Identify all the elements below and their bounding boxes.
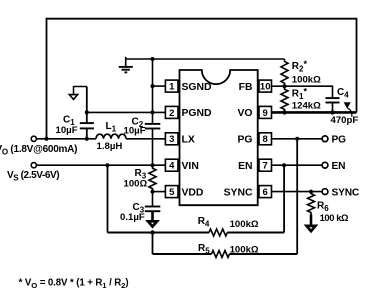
svg-text:10µF: 10µF (124, 125, 146, 136)
svg-text:9: 9 (263, 108, 268, 119)
svg-text:10: 10 (260, 82, 271, 93)
svg-text:100kΩ: 100kΩ (292, 75, 321, 86)
svg-text:VO: VO (237, 108, 252, 119)
svg-text:8: 8 (263, 134, 268, 145)
svg-text:100kΩ: 100kΩ (230, 219, 259, 230)
svg-text:1: 1 (169, 82, 175, 93)
svg-text:PGND: PGND (182, 108, 213, 119)
svg-text:100 kΩ: 100 kΩ (320, 212, 349, 223)
svg-text:PG: PG (237, 135, 252, 146)
svg-text:5: 5 (169, 187, 175, 198)
svg-text:LX: LX (182, 135, 195, 146)
svg-text:SYNC: SYNC (332, 188, 360, 199)
svg-text:VO (1.8V@600mA): VO (1.8V@600mA) (0, 144, 77, 157)
svg-text:SGND: SGND (182, 82, 213, 93)
svg-text:470pF: 470pF (331, 115, 359, 126)
svg-text:PG: PG (332, 135, 347, 146)
svg-text:EN: EN (238, 161, 252, 172)
svg-text:EN: EN (332, 161, 346, 172)
svg-text:6: 6 (263, 187, 268, 198)
svg-text:SYNC: SYNC (224, 187, 253, 198)
svg-text:1.8µH: 1.8µH (97, 141, 123, 152)
svg-text:VDD: VDD (182, 187, 204, 198)
svg-text:100Ω: 100Ω (124, 178, 148, 189)
svg-text:100kΩ: 100kΩ (230, 244, 259, 255)
svg-text:7: 7 (263, 161, 268, 172)
svg-text:4: 4 (169, 161, 175, 172)
svg-text:3: 3 (169, 134, 174, 145)
svg-text:2: 2 (169, 108, 174, 119)
svg-text:FB: FB (239, 82, 253, 93)
svg-text:10µF: 10µF (56, 125, 78, 136)
svg-text:124kΩ: 124kΩ (292, 100, 321, 111)
svg-text:VIN: VIN (182, 161, 199, 172)
svg-text:0.1µF: 0.1µF (120, 212, 145, 223)
